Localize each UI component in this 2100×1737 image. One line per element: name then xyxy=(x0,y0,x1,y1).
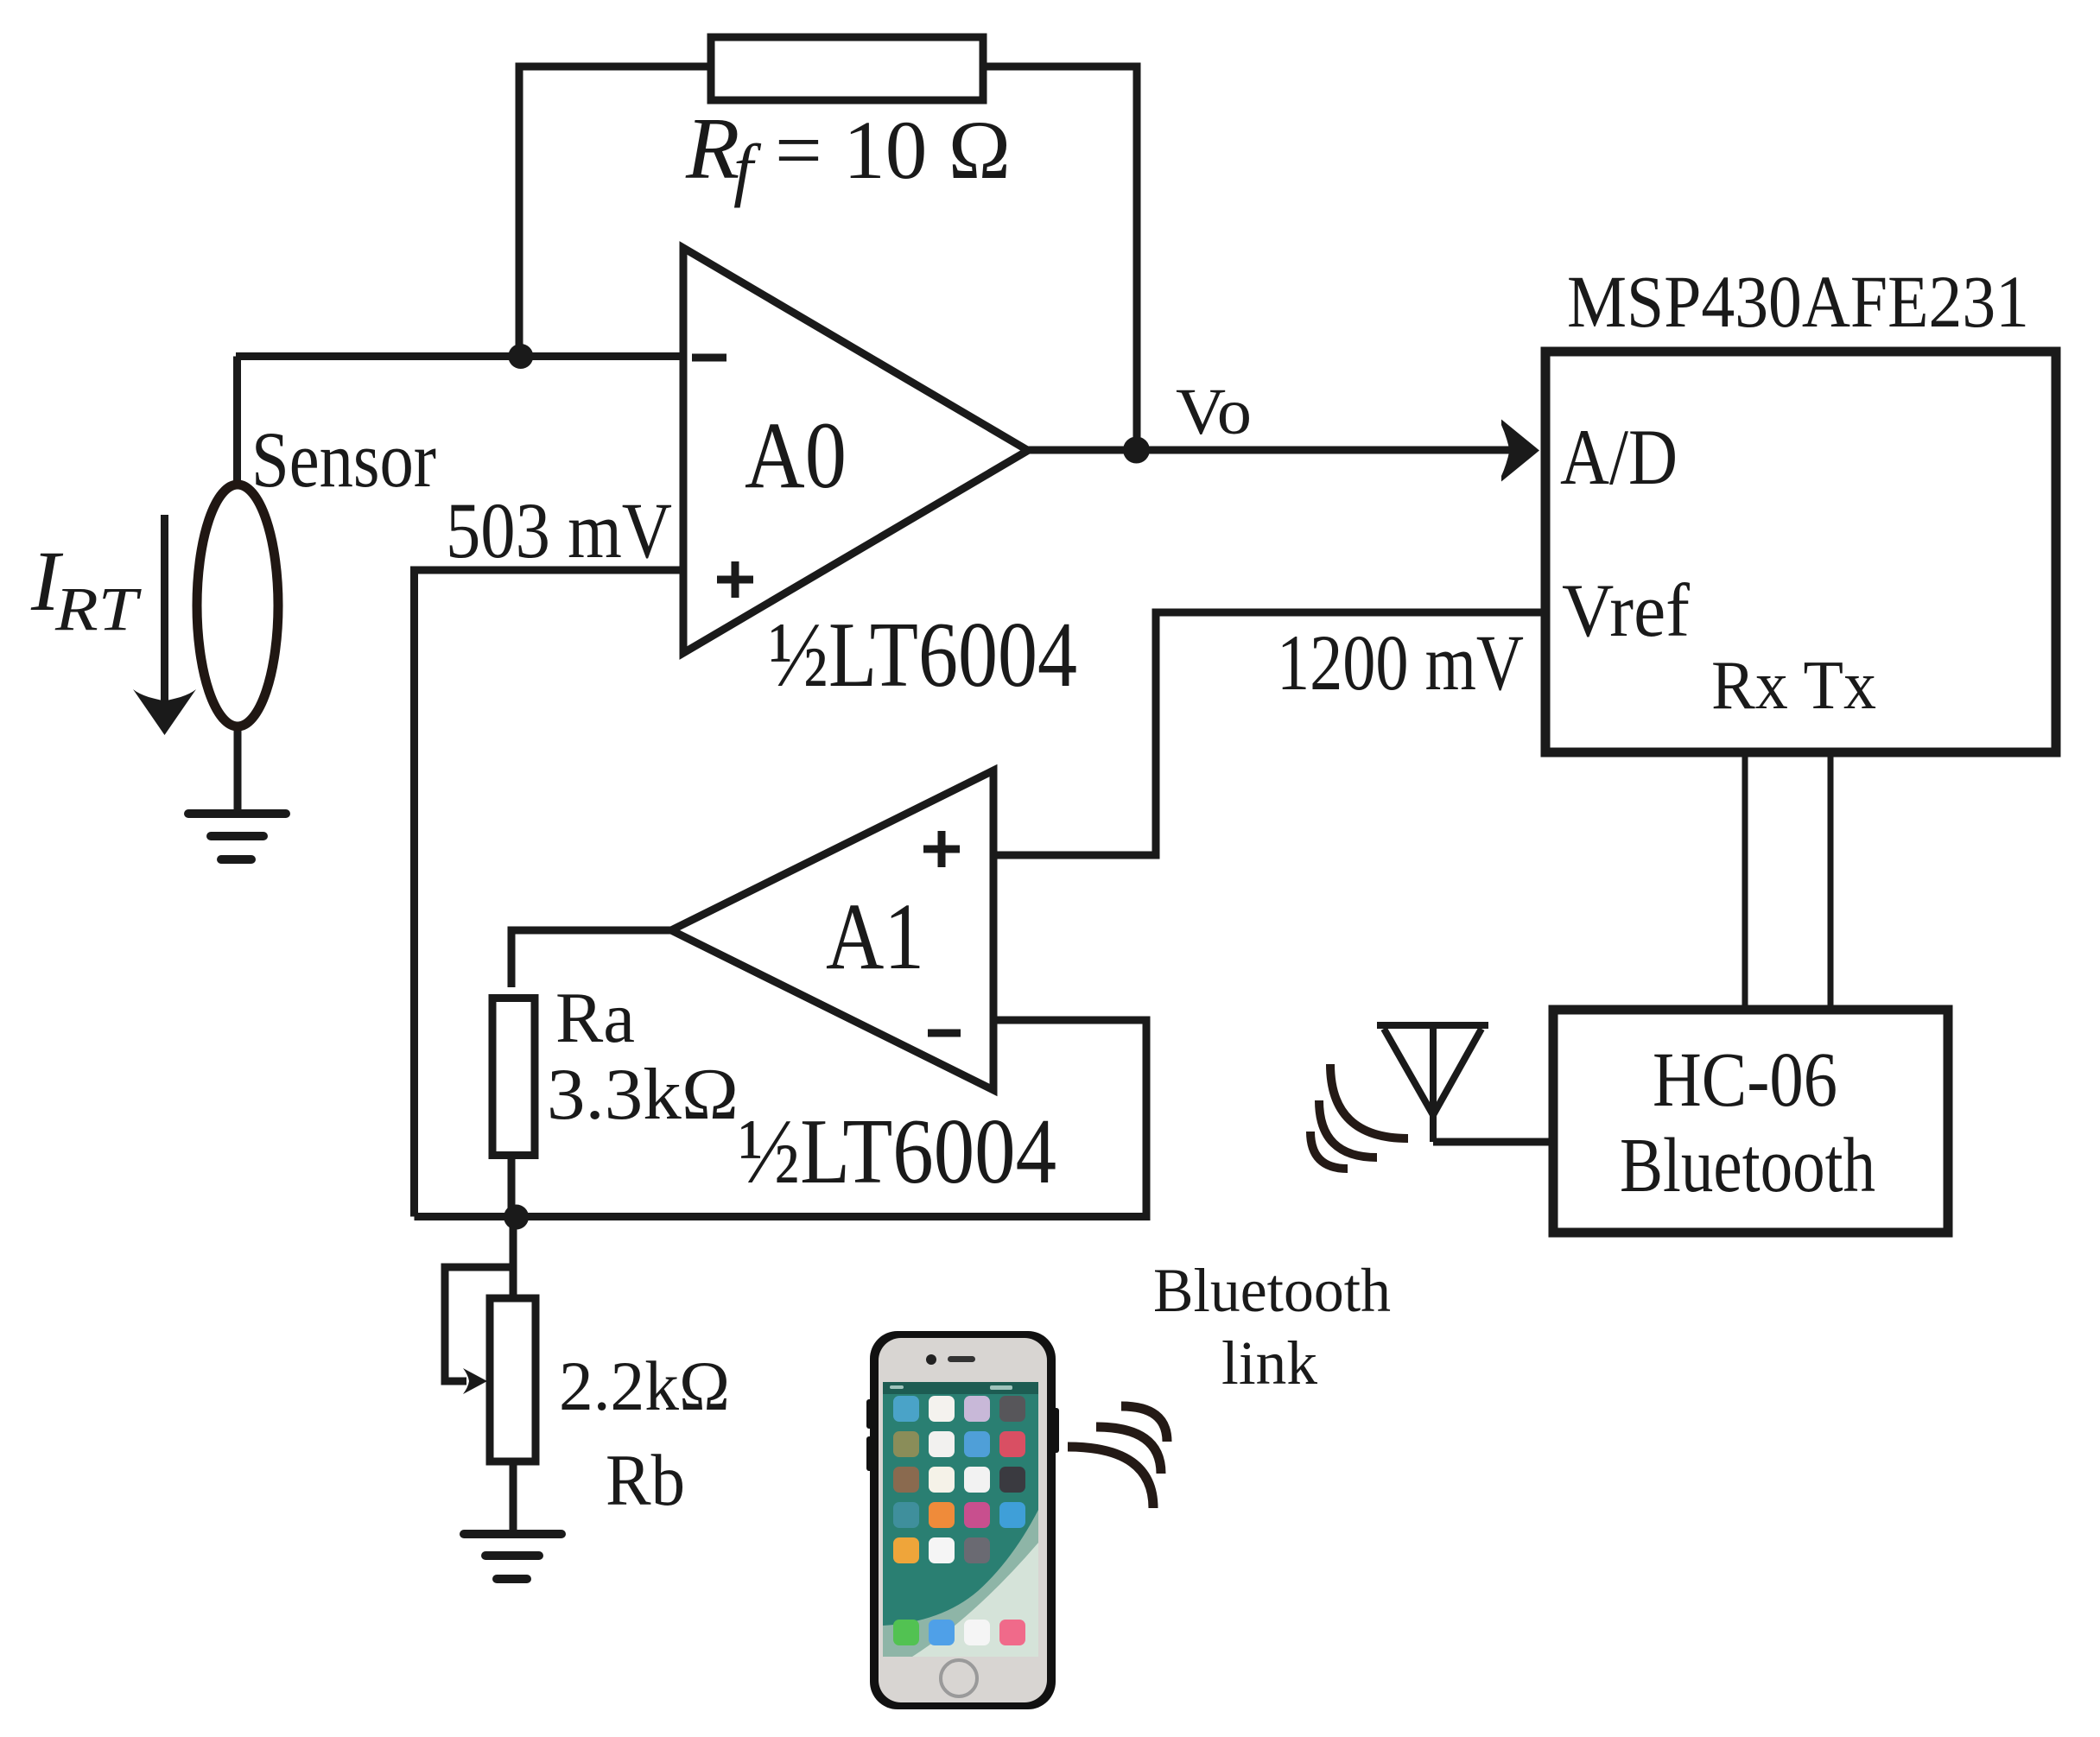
svg-text:R: R xyxy=(685,100,739,198)
svg-text:Ra: Ra xyxy=(555,978,635,1058)
svg-text:1200 mV: 1200 mV xyxy=(1277,618,1524,707)
svg-text:Bluetooth: Bluetooth xyxy=(1620,1123,1875,1208)
svg-text:Bluetooth: Bluetooth xyxy=(1153,1256,1391,1325)
svg-text:HC-06: HC-06 xyxy=(1653,1037,1837,1123)
svg-text:Vref: Vref xyxy=(1562,569,1691,653)
svg-text:link: link xyxy=(1221,1328,1317,1398)
svg-text:3.3kΩ: 3.3kΩ xyxy=(547,1054,739,1135)
svg-text:RT: RT xyxy=(54,574,143,643)
svg-text:MSP430AFE231: MSP430AFE231 xyxy=(1567,260,2029,343)
svg-text:2.2kΩ: 2.2kΩ xyxy=(559,1347,730,1425)
svg-text:A/D: A/D xyxy=(1560,413,1678,501)
svg-text:A1: A1 xyxy=(826,884,924,989)
svg-text:503 mV: 503 mV xyxy=(446,486,672,574)
svg-text:Rx Tx: Rx Tx xyxy=(1711,648,1876,724)
svg-text:= 10 Ω: = 10 Ω xyxy=(775,104,1011,196)
svg-text:Rb: Rb xyxy=(606,1440,685,1521)
svg-text:Sensor: Sensor xyxy=(251,415,436,504)
svg-text:Vo: Vo xyxy=(1176,376,1252,448)
svg-text:½LT6004: ½LT6004 xyxy=(739,1100,1056,1203)
svg-text:½LT6004: ½LT6004 xyxy=(769,604,1077,707)
svg-text:A0: A0 xyxy=(745,403,847,508)
